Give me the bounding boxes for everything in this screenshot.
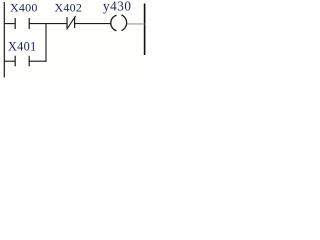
- wire coil to right rail (gray): [127, 23, 144, 25]
- contact X400 bar2: [28, 18, 30, 29]
- wire rung2 seg rail to X401: [4, 60, 15, 62]
- svg-text:y430: y430: [103, 0, 132, 14]
- background: [0, 0, 152, 86]
- wire rung2 seg X401 to junction: [29, 60, 46, 62]
- wire rung1 seg rail to X400: [4, 23, 15, 25]
- coil y430 right paren: [121, 15, 126, 31]
- wire rung1 seg X402 to coil: [75, 23, 112, 25]
- svg-text:X400: X400: [10, 1, 38, 15]
- contact X401 bar2: [28, 56, 30, 67]
- right power rail: [144, 4, 146, 56]
- contact X401 bar1: [14, 56, 16, 67]
- contact X402 bar1: [66, 17, 68, 28]
- contact X402 bar2: [74, 17, 76, 28]
- contact X402 NC slash: [67, 16, 76, 30]
- left power rail: [3, 2, 5, 77]
- svg-text:X402: X402: [55, 1, 83, 15]
- svg-text:X401: X401: [8, 39, 37, 53]
- coil y430 left paren: [111, 15, 117, 31]
- contact X400 bar1: [14, 18, 16, 29]
- wire rung1 seg X400 to X402: [29, 23, 67, 25]
- junction vertical branch: [45, 23, 47, 62]
